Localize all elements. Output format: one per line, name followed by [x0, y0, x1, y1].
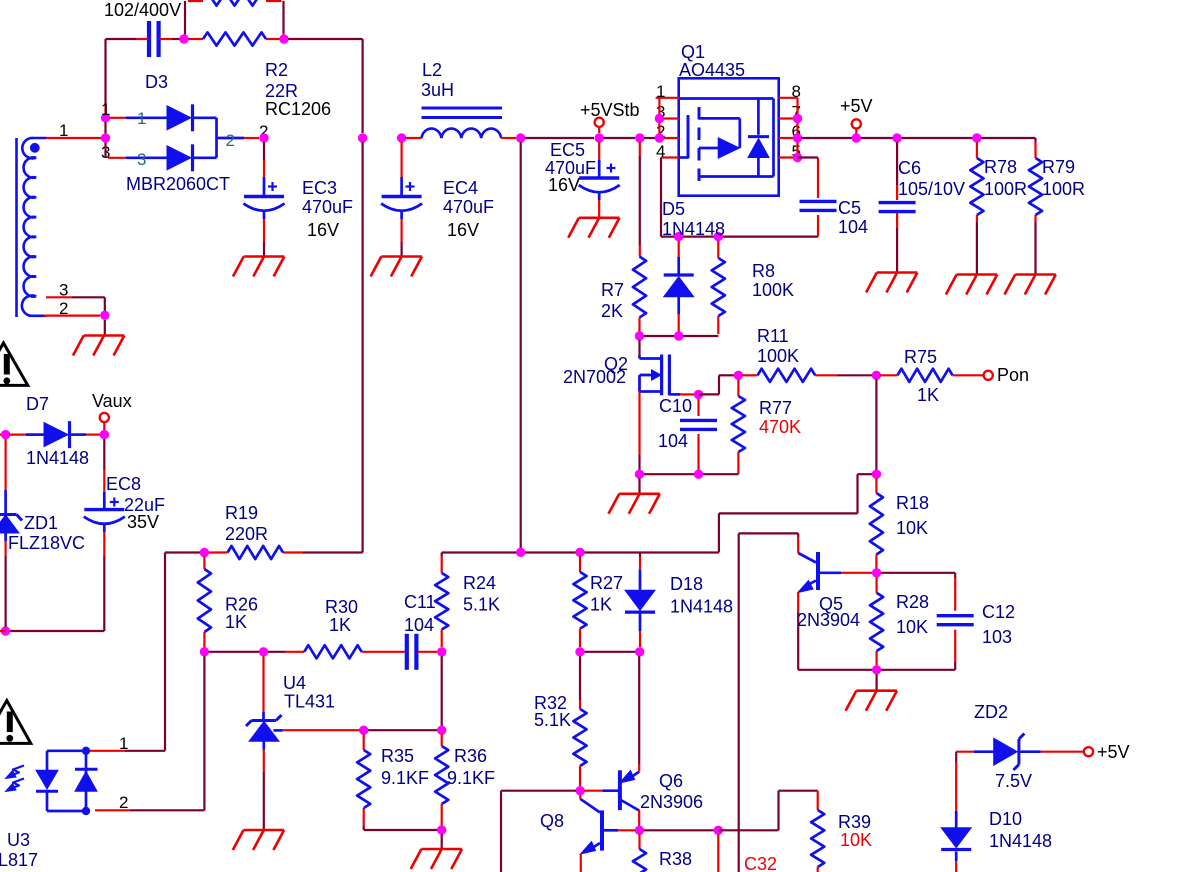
- wire EC4 bottom: [400, 212, 403, 219]
- junction Q1 pin5: [793, 153, 802, 162]
- wire EC4 top: [401, 142, 403, 160]
- wire ZD2 right: [1021, 750, 1041, 753]
- capacitor EC3: [244, 195, 284, 198]
- transistor Q8 collector: [580, 799, 600, 813]
- wire L2 left stub: [405, 137, 422, 139]
- wire port stub: [598, 127, 600, 133]
- wire trans gnd: [104, 320, 106, 336]
- svg-text:2: 2: [119, 793, 128, 812]
- svg-text:R11: R11: [757, 326, 789, 346]
- warning triangle upper: [0, 343, 28, 385]
- svg-text:10K: 10K: [840, 830, 872, 850]
- resistor R24: [435, 573, 448, 630]
- junction bus EC5: [595, 133, 604, 142]
- resistor R36: [435, 746, 448, 804]
- junction R36 top: [437, 726, 446, 735]
- junction node2: [101, 133, 110, 142]
- wire R79 corner: [1034, 138, 1036, 142]
- svg-text:3uH: 3uH: [421, 80, 454, 100]
- mosfet Q1 gate lead: [679, 156, 688, 159]
- pin 5 Q1: [779, 156, 798, 158]
- inductor L2: [422, 129, 502, 138]
- wire fb line: [442, 551, 719, 553]
- wire top snubber risers: [184, 1, 186, 34]
- wire R26 to R30: [209, 651, 259, 653]
- svg-text:103: 103: [982, 627, 1012, 647]
- wire mid vertical: [362, 142, 364, 553]
- transistor Q8 emitter: [589, 843, 600, 850]
- tl431 U4 anode wire: [262, 741, 265, 749]
- mosfet Q1 arrow: [699, 147, 718, 150]
- wire D18 bottom: [639, 612, 642, 631]
- mosfet Q1 source stub: [699, 117, 740, 120]
- junction R36 bottom: [437, 825, 446, 834]
- wire EC8 top: [103, 439, 105, 470]
- transformer pin3 wire: [46, 296, 72, 298]
- resistor R30 stubs: [268, 651, 285, 653]
- junction D18 bottom: [635, 647, 644, 656]
- svg-text:470K: 470K: [759, 417, 801, 437]
- resistor R28 stubs: [875, 577, 877, 593]
- svg-text:7.5V: 7.5V: [995, 771, 1032, 791]
- resistor R36 stubs: [441, 734, 443, 746]
- mosfet Q1 channel dashed: [698, 107, 701, 188]
- wire R32 bottom: [579, 766, 581, 786]
- svg-text:1K: 1K: [225, 612, 247, 632]
- wire Q2 gnd: [638, 478, 640, 494]
- transistor Q6 emitter: [638, 769, 640, 772]
- junction rail Q2: [635, 470, 644, 479]
- svg-text:1K: 1K: [917, 385, 939, 405]
- svg-text:2: 2: [226, 131, 235, 150]
- svg-text:C32: C32: [744, 854, 777, 872]
- transistor Q6 base lead: [584, 790, 603, 792]
- wire ZD2 left: [956, 751, 974, 753]
- svg-text:L2: L2: [422, 60, 442, 80]
- ground R78: [957, 273, 998, 276]
- mosfet Q2 bottom stub: [640, 390, 662, 393]
- wire Q2 source to R11: [699, 393, 720, 395]
- junction trans gnd: [100, 311, 109, 320]
- capacitor EC5: [579, 176, 619, 179]
- ground U4: [244, 829, 285, 832]
- svg-text:1: 1: [119, 734, 128, 753]
- svg-text:16V: 16V: [548, 175, 580, 195]
- junction bus mid: [358, 133, 367, 142]
- diode D3 lower: [167, 146, 191, 170]
- svg-text:R78: R78: [984, 157, 1017, 177]
- svg-text:R30: R30: [325, 597, 358, 617]
- svg-text:2N3904: 2N3904: [797, 610, 860, 630]
- wire Q1 right pins tie: [796, 98, 798, 158]
- junction +5V C6: [892, 133, 901, 142]
- wire fbdrive left: [501, 790, 576, 792]
- svg-text:EC4: EC4: [443, 178, 478, 198]
- svg-text:1N4148: 1N4148: [26, 448, 89, 468]
- svg-text:EC5: EC5: [550, 140, 585, 160]
- junction left bottom: [1, 626, 10, 635]
- junction R75: [872, 371, 881, 380]
- junction top right: [279, 34, 288, 43]
- resistor R38: [633, 849, 646, 872]
- junction bus EC3: [259, 133, 268, 142]
- wire R7 top: [639, 142, 641, 156]
- svg-text:+5VStb: +5VStb: [580, 100, 640, 120]
- svg-text:10K: 10K: [896, 518, 928, 538]
- wire R35 R36 rail: [364, 829, 438, 831]
- svg-text:R18: R18: [896, 493, 929, 513]
- svg-text:R2: R2: [265, 60, 288, 80]
- wire EC3 bottom: [263, 212, 266, 219]
- resistor R78 stubs: [976, 142, 978, 158]
- capacitor C12: [937, 614, 974, 617]
- wire R39 staircase: [718, 829, 778, 831]
- tl431 U4 cathode wire: [262, 656, 264, 680]
- transistor Q6 collector: [620, 800, 639, 811]
- pin 4 Q1: [661, 156, 679, 158]
- tl431 U4: [252, 719, 277, 722]
- svg-text:1: 1: [59, 121, 68, 140]
- junction gatenet R7: [635, 331, 644, 340]
- junction C11 R24: [437, 647, 446, 656]
- transistor Q5 emitter: [804, 581, 816, 588]
- transformer winding: [22, 138, 47, 316]
- resistor R32: [573, 709, 586, 766]
- wire Q2 gate: [638, 340, 640, 356]
- junction Q5 rail: [872, 665, 881, 674]
- svg-text:100R: 100R: [984, 179, 1027, 199]
- junction Q8 collector node: [576, 786, 585, 795]
- svg-text:1: 1: [101, 100, 110, 119]
- warning triangle lower: [0, 701, 31, 744]
- capacitor C11: [405, 634, 409, 670]
- pin 7 Q1: [779, 117, 798, 119]
- junction Q2 C10: [694, 390, 703, 399]
- diode D7 cathode wire: [71, 433, 87, 436]
- junction gate D5: [674, 232, 683, 241]
- mosfet Q2 bar2: [668, 355, 671, 396]
- capacitor C2 102/400V: [147, 21, 151, 57]
- wire R2 to bus corner: [288, 38, 363, 40]
- wire R36 gnd: [441, 834, 443, 849]
- mosfet Q2 left vertical: [638, 375, 641, 392]
- wire Q5 collector run: [739, 532, 799, 534]
- polarity EC8: [110, 501, 119, 503]
- svg-text:C12: C12: [982, 602, 1015, 622]
- resistor R26 stubs: [203, 556, 205, 569]
- svg-text:220R: 220R: [225, 524, 268, 544]
- wire +5V bus: [801, 137, 1036, 139]
- capacitor EC8: [84, 508, 124, 511]
- svg-text:2K: 2K: [601, 301, 623, 321]
- transformer pin1 wire: [46, 137, 101, 139]
- diode D10: [941, 828, 971, 848]
- svg-text:100K: 100K: [752, 280, 794, 300]
- resistor R11 stubs: [742, 374, 758, 376]
- opto U3 top edge: [47, 749, 86, 752]
- junction bus EC4: [397, 133, 406, 142]
- wire C5 branch: [798, 156, 819, 158]
- wire C2 right: [160, 38, 172, 40]
- svg-text:Q8: Q8: [540, 811, 564, 831]
- resistor R39 stub: [817, 791, 819, 810]
- wire D10 top: [955, 752, 957, 762]
- junction R27 bottom: [575, 647, 584, 656]
- svg-text:Pon: Pon: [997, 365, 1029, 385]
- resistor R1 (top, partially visible): [203, 0, 266, 6]
- svg-text:RC1206: RC1206: [265, 99, 331, 119]
- svg-text:Q6: Q6: [659, 771, 683, 791]
- resistor R11: [758, 369, 816, 382]
- svg-text:R19: R19: [225, 503, 258, 523]
- zener ZD2: [994, 738, 1018, 765]
- wire mid vertical2: [520, 142, 522, 552]
- resistor R27: [573, 572, 586, 629]
- junction +5V port: [852, 133, 861, 142]
- svg-text:R28: R28: [896, 592, 929, 612]
- svg-text:100R: 100R: [1042, 179, 1085, 199]
- zener ZD1 bottom wire: [4, 533, 7, 541]
- svg-text:104: 104: [658, 431, 688, 451]
- svg-text:R38: R38: [659, 849, 692, 869]
- wire R32 top: [579, 656, 581, 700]
- port +5V: [852, 119, 861, 128]
- svg-text:D5: D5: [662, 199, 685, 219]
- wire C10: [697, 399, 699, 416]
- svg-text:9.1KF: 9.1KF: [381, 768, 429, 788]
- pin 3 Q1: [656, 117, 679, 119]
- svg-text:104: 104: [404, 615, 434, 635]
- svg-text:EC8: EC8: [106, 474, 141, 494]
- svg-text:100K: 100K: [757, 346, 799, 366]
- opto U3 node dots: [82, 747, 90, 755]
- junction gatenet D5: [674, 331, 683, 340]
- wire bus to Q1: [644, 137, 655, 139]
- svg-text:9.1KF: 9.1KF: [447, 768, 495, 788]
- opto U3 arrows: [8, 766, 24, 777]
- wire R11 to R75: [837, 374, 872, 376]
- resistor R18 stubs: [875, 478, 877, 493]
- svg-text:R7: R7: [601, 280, 624, 300]
- mosfet Q1 drain stub: [699, 175, 752, 178]
- mosfet Q1 inner anode rail: [757, 158, 760, 177]
- transistor Q8 base lead: [604, 829, 618, 832]
- junction Q5 base: [872, 568, 881, 577]
- svg-text:C11: C11: [404, 592, 436, 612]
- svg-text:R35: R35: [381, 746, 414, 766]
- ground EC4: [381, 255, 422, 258]
- pin 2 Q1: [656, 137, 679, 139]
- wire EC8 bottom: [103, 525, 106, 532]
- junction bus R7: [635, 133, 644, 142]
- ground C6: [877, 271, 918, 274]
- svg-text:+5V: +5V: [1097, 742, 1130, 762]
- resistor R28: [870, 593, 883, 651]
- svg-text:TL431: TL431: [284, 692, 335, 712]
- diode D3 pin1 wire: [110, 117, 126, 119]
- svg-text:1N4148: 1N4148: [662, 219, 725, 239]
- svg-text:1N4148: 1N4148: [989, 831, 1052, 851]
- diode D3 upper: [167, 106, 191, 130]
- svg-text:C5: C5: [838, 198, 861, 218]
- junction fb mid: [516, 548, 525, 557]
- wire C12 top: [881, 572, 955, 574]
- svg-text:2N3906: 2N3906: [640, 792, 703, 812]
- wire C6 branch: [896, 142, 898, 185]
- transformer phase dot: [30, 143, 40, 153]
- svg-text:U3: U3: [7, 830, 30, 850]
- wire R75 node down: [875, 379, 877, 470]
- capacitor C5: [800, 200, 837, 203]
- svg-text:5.1K: 5.1K: [463, 595, 500, 615]
- svg-text:16V: 16V: [307, 220, 339, 240]
- diode D7: [44, 423, 68, 447]
- mosfet Q2 bar1: [660, 355, 663, 396]
- wire R19 right: [283, 551, 303, 553]
- resistor R30: [304, 645, 362, 658]
- port Pon: [984, 371, 993, 380]
- wire node1 to node2: [104, 122, 106, 138]
- ground Q5: [856, 689, 897, 692]
- svg-text:U4: U4: [283, 673, 306, 693]
- wire EC5 top: [598, 142, 600, 160]
- junction +5V R78: [972, 133, 981, 142]
- junction rail C10: [694, 470, 703, 479]
- transistor Q8 bar: [600, 810, 604, 850]
- transformer pin2 wire: [44, 315, 100, 317]
- wire R77 stubs: [737, 379, 739, 396]
- resistor R35 stubs: [363, 734, 365, 750]
- ground EC5: [579, 217, 620, 220]
- wire C2 left: [106, 38, 137, 40]
- svg-text:1: 1: [137, 109, 146, 128]
- svg-text:8: 8: [792, 82, 801, 101]
- svg-text:D7: D7: [26, 394, 49, 414]
- mosfet Q2 arrow stub: [640, 374, 652, 377]
- ground Q2: [619, 492, 660, 495]
- mosfet Q1 box: [679, 78, 779, 195]
- resistor R27 bottom stub: [579, 629, 581, 647]
- svg-text:MBR2060CT: MBR2060CT: [126, 174, 230, 194]
- resistor R18: [870, 493, 883, 555]
- svg-text:104: 104: [838, 217, 868, 237]
- wire C11 right: [418, 651, 437, 653]
- junction Q1 pin3: [655, 114, 664, 123]
- resistor R75: [898, 369, 953, 382]
- svg-text:D3: D3: [145, 72, 168, 92]
- svg-text:35V: 35V: [127, 512, 159, 532]
- pin 6 Q1: [779, 137, 798, 139]
- mosfet Q2 gate stub: [640, 357, 662, 360]
- port Vaux: [100, 413, 109, 422]
- mosfet Q1 inner source rail: [679, 97, 774, 100]
- wire staircase R18: [858, 473, 873, 475]
- opto U3 pin1 wire: [90, 750, 125, 752]
- svg-text:10K: 10K: [896, 617, 928, 637]
- wire R24node down: [441, 656, 443, 726]
- wire R27 D18 bottom: [580, 651, 640, 653]
- junction bus L2 right: [516, 133, 525, 142]
- svg-text:EC3: EC3: [302, 178, 337, 198]
- wire C32 drop: [717, 834, 719, 872]
- transistor Q5 base lead: [841, 572, 872, 574]
- junction Q1 pin2: [655, 133, 664, 142]
- wire bus to EC5: [525, 137, 594, 139]
- zener ZD1 top wire: [4, 439, 6, 490]
- wire EC3 top: [263, 142, 265, 160]
- svg-text:16V: 16V: [447, 220, 479, 240]
- resistor R75 stubs: [880, 374, 898, 376]
- diode D3 pin2 wire: [217, 137, 245, 140]
- svg-text:2: 2: [59, 299, 68, 318]
- svg-text:+5V: +5V: [840, 96, 873, 116]
- svg-text:1: 1: [656, 82, 665, 101]
- junction C32 node: [714, 826, 723, 835]
- wire Q5 gnd: [875, 674, 877, 691]
- junction R19 R26: [200, 548, 209, 557]
- junction ZD1 top: [1, 430, 10, 439]
- resistor R24 bottom stub: [441, 630, 443, 648]
- mosfet Q2 source lead: [669, 393, 680, 396]
- ground EC3: [244, 255, 285, 258]
- wire Q1 left pins tie: [658, 98, 660, 138]
- svg-text:102/400V: 102/400V: [104, 0, 181, 20]
- wire L2 right stub: [501, 137, 516, 139]
- opto U3 led: [46, 751, 49, 771]
- wire D18 branch: [639, 553, 641, 557]
- capacitor C10: [680, 419, 717, 422]
- wire R26 to U3pin2: [203, 656, 205, 810]
- svg-text:PL817: PL817: [0, 850, 38, 870]
- wire left edge Vaux: [0, 434, 6, 436]
- svg-text:Q1: Q1: [681, 42, 705, 62]
- svg-text:D18: D18: [670, 574, 703, 594]
- opto U3 photodiode: [85, 751, 88, 811]
- svg-text:R75: R75: [904, 347, 937, 367]
- diode D5 wires: [678, 241, 680, 257]
- junction Q6 coll node: [635, 826, 644, 835]
- junction fb R27: [575, 548, 584, 557]
- svg-text:1K: 1K: [590, 595, 612, 615]
- resistor R8: [712, 258, 725, 316]
- svg-text:R79: R79: [1042, 157, 1075, 177]
- wire base rail right: [644, 829, 718, 831]
- diode D5: [664, 277, 694, 297]
- resistor R7: [633, 257, 646, 318]
- mosfet Q1 body diode: [748, 139, 769, 158]
- svg-text:2N7002: 2N7002: [563, 367, 626, 387]
- resistor R38 stub: [638, 834, 640, 849]
- wire Q1 gate down: [660, 158, 662, 237]
- polarity EC3: [268, 185, 277, 187]
- junction top left: [179, 34, 188, 43]
- svg-text:Vaux: Vaux: [92, 391, 132, 411]
- resistor R78: [970, 158, 983, 215]
- wire gate net bottom: [640, 335, 719, 337]
- svg-text:R8: R8: [752, 261, 775, 281]
- port +5VStb: [595, 118, 604, 127]
- junction Q1 pin6: [793, 133, 802, 142]
- resistor R35: [357, 750, 370, 808]
- svg-text:FLZ18VC: FLZ18VC: [8, 533, 85, 553]
- wire R27 stub: [579, 556, 581, 572]
- wire EC5 bottom: [598, 194, 601, 201]
- ground R79: [1015, 273, 1056, 276]
- resistor R19: [228, 546, 284, 559]
- diode D7 anode wire: [9, 434, 26, 436]
- svg-text:22R: 22R: [265, 81, 298, 101]
- diode D18: [625, 590, 655, 610]
